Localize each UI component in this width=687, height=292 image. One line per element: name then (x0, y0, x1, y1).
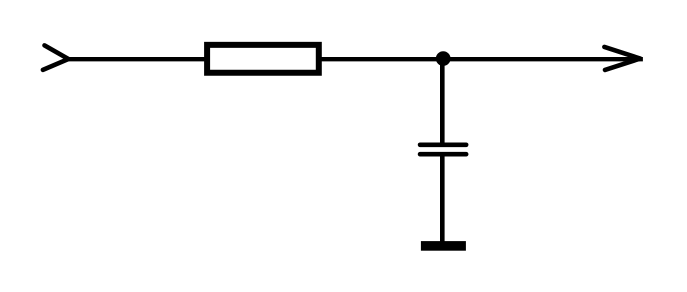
wire: input terminal to resistor (68, 57, 209, 61)
capacitor top plate (420, 142, 466, 147)
ground (421, 241, 466, 251)
output terminal arrow (604, 47, 640, 70)
resistor (207, 45, 319, 73)
wire: junction node down to capacitor (440, 59, 445, 145)
junction node (436, 51, 451, 66)
capacitor bottom plate (420, 152, 466, 157)
wire: capacitor to ground (440, 154, 445, 243)
wire: resistor to output arrow tip (318, 57, 643, 61)
input terminal arrow (43, 45, 69, 70)
